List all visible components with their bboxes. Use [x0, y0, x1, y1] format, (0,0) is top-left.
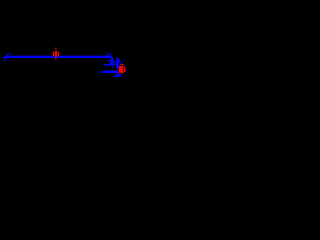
body fill [120, 66, 123, 72]
top edge [121, 64, 123, 65]
vertical wire branch beside corner [110, 60, 112, 64]
right pin column [124, 66, 125, 67]
junction pad (solid blue block) [114, 60, 120, 68]
pin-1 dot above [55, 47, 56, 48]
net label at right junction (tiny blue text above corner) [106, 52, 112, 56]
gnd bar (horizontal blue band under junction) [100, 63, 116, 67]
wire corner: main net turns down at right [110, 57, 114, 68]
reference text under junction (tiny blue text) [113, 76, 122, 79]
wire W1: main horizontal net [3, 55, 112, 58]
vertical trunk wire down from junction [116, 68, 119, 76]
left plate [53, 51, 54, 52]
node mark (small blue corner above component D1) [120, 61, 123, 65]
pin stub below lower wire [114, 74, 115, 76]
background [0, 0, 128, 128]
bottom edge [120, 72, 121, 73]
blue pad bar at bottom of junction [118, 74, 121, 76]
pin stub of left port (short blue tail below wire start) [2, 57, 7, 62]
pin dash left of corner [106, 60, 110, 61]
component F1 (red highlighted part crossing the wire) [53, 47, 59, 60]
right plate [58, 52, 59, 56]
pin-2 dot below [55, 58, 56, 59]
lower horizontal wire W2 [98, 70, 117, 73]
centre bar [55, 50, 57, 51]
net label IN (tiny blue text above left end of wire) [6, 53, 12, 56]
left pin column [119, 66, 120, 72]
wire stub to the right of corner [116, 58, 120, 60]
component D1 (red highlighted part at right edge) [119, 64, 126, 74]
